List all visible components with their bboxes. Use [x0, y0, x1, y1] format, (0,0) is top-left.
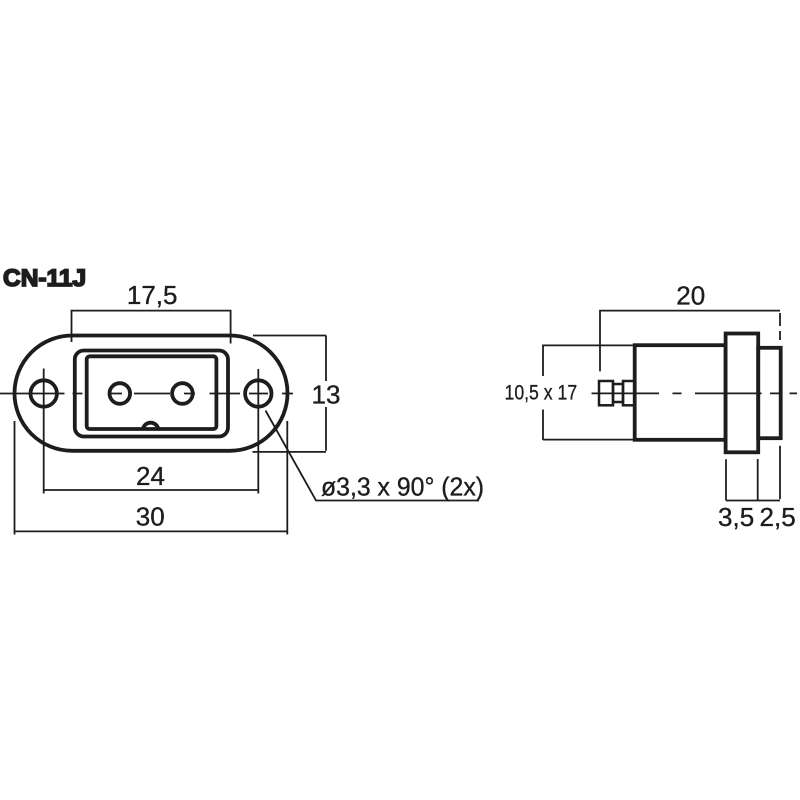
svg-text:24: 24 — [136, 461, 165, 491]
svg-text:10,5 x 17: 10,5 x 17 — [505, 381, 578, 405]
svg-text:17,5: 17,5 — [127, 280, 178, 310]
svg-text:13: 13 — [312, 380, 341, 410]
svg-text:3,5: 3,5 — [718, 502, 754, 532]
svg-text:ø3,3 x 90° (2x): ø3,3 x 90° (2x) — [321, 472, 484, 502]
svg-text:CN-11J: CN-11J — [3, 265, 86, 292]
svg-text:30: 30 — [136, 502, 165, 532]
svg-text:2,5: 2,5 — [760, 502, 796, 532]
svg-text:20: 20 — [676, 281, 705, 311]
